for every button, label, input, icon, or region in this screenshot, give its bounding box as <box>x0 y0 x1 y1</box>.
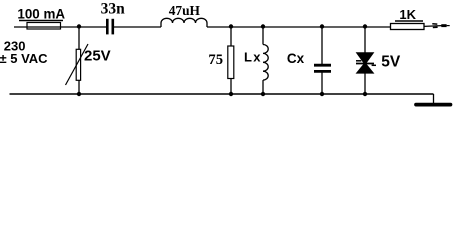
svg-text:Cx: Cx <box>287 51 305 66</box>
TVS diode D1 left bent end <box>356 60 361 62</box>
node: top rail / inductor Lx branch <box>261 24 265 28</box>
capacitor Cx bottom plate <box>314 70 331 73</box>
fuse F1 100 mA (rectangle over the wire) <box>27 23 61 30</box>
output arrow solid head <box>441 24 446 27</box>
node: Lx to bottom rail <box>261 92 265 96</box>
TVS diode D1 upper triangle (cathode down) <box>356 53 373 65</box>
output arrow feather lower <box>433 26 438 28</box>
node: TVS to bottom rail <box>363 92 367 96</box>
wire: R2 to output arrow <box>424 25 442 28</box>
underline of label 1K <box>395 20 423 22</box>
wire: varistor branch vertical <box>78 27 80 94</box>
wire: TVS branch bottom lead <box>364 73 366 94</box>
node: 75 ohm to bottom rail <box>229 92 233 96</box>
node: junction of fuse output / varistor branch <box>77 24 81 28</box>
svg-text:Lx: Lx <box>244 50 262 65</box>
node: top rail / TVS diode branch <box>363 24 367 28</box>
svg-text:5V: 5V <box>381 54 401 71</box>
svg-text:100 mA: 100 mA <box>17 7 65 22</box>
capacitor Cx top plate <box>314 64 331 67</box>
resistor R1 75 body <box>228 46 234 79</box>
wire: bottom rail drop to ground <box>433 94 435 103</box>
inductor L1 47uH (4 humps) <box>161 18 207 27</box>
underline of label 100 mA <box>19 20 63 22</box>
svg-text:33n: 33n <box>101 1 126 18</box>
node: top rail / capacitor Cx branch <box>320 24 324 28</box>
capacitor C1 33n plates <box>106 19 109 35</box>
wire: Cx branch bottom lead <box>321 73 323 95</box>
wire: Lx branch top lead <box>262 27 264 45</box>
svg-text:25V: 25V <box>84 47 111 64</box>
bottom rail wire <box>10 93 434 95</box>
node: top rail / 75 ohm resistor branch <box>229 24 233 28</box>
varistor RV1 body <box>76 49 80 80</box>
ground (chassis bar) <box>416 103 451 107</box>
wire: L1 to resistor R2 1K (top rail right segment) <box>207 26 391 28</box>
svg-text:1K: 1K <box>399 7 416 22</box>
node: varistor to bottom rail <box>77 92 81 96</box>
wire: AC input to capacitor C1 (top rail left segment, passes through fuse) <box>14 26 106 28</box>
wire: 75 ohm branch top lead <box>230 27 232 46</box>
wire: 75 ohm branch bottom lead <box>230 79 232 95</box>
wire: Cx branch top lead <box>321 27 323 64</box>
wire: C1 to L1 <box>114 26 161 28</box>
svg-text:47uH: 47uH <box>169 3 201 18</box>
TVS diode D1 center bar with bent ends <box>356 63 374 65</box>
wire: TVS branch top lead <box>364 27 366 53</box>
wire: Lx branch bottom lead <box>262 80 264 94</box>
output arrow tip line <box>447 25 450 27</box>
node: Cx to bottom rail <box>320 92 324 96</box>
resistor R2 1K body <box>391 24 425 30</box>
TVS diode D1 right bent end <box>372 64 376 66</box>
output arrow feather upper <box>432 23 437 25</box>
varistor RV1 diagonal stroke <box>66 44 89 85</box>
svg-text:± 5 VAC: ± 5 VAC <box>0 51 48 66</box>
inductor Lx (4 humps, bulge right) <box>263 45 268 81</box>
svg-text:75: 75 <box>208 52 223 68</box>
TVS diode D1 lower triangle (cathode up) <box>356 63 373 74</box>
